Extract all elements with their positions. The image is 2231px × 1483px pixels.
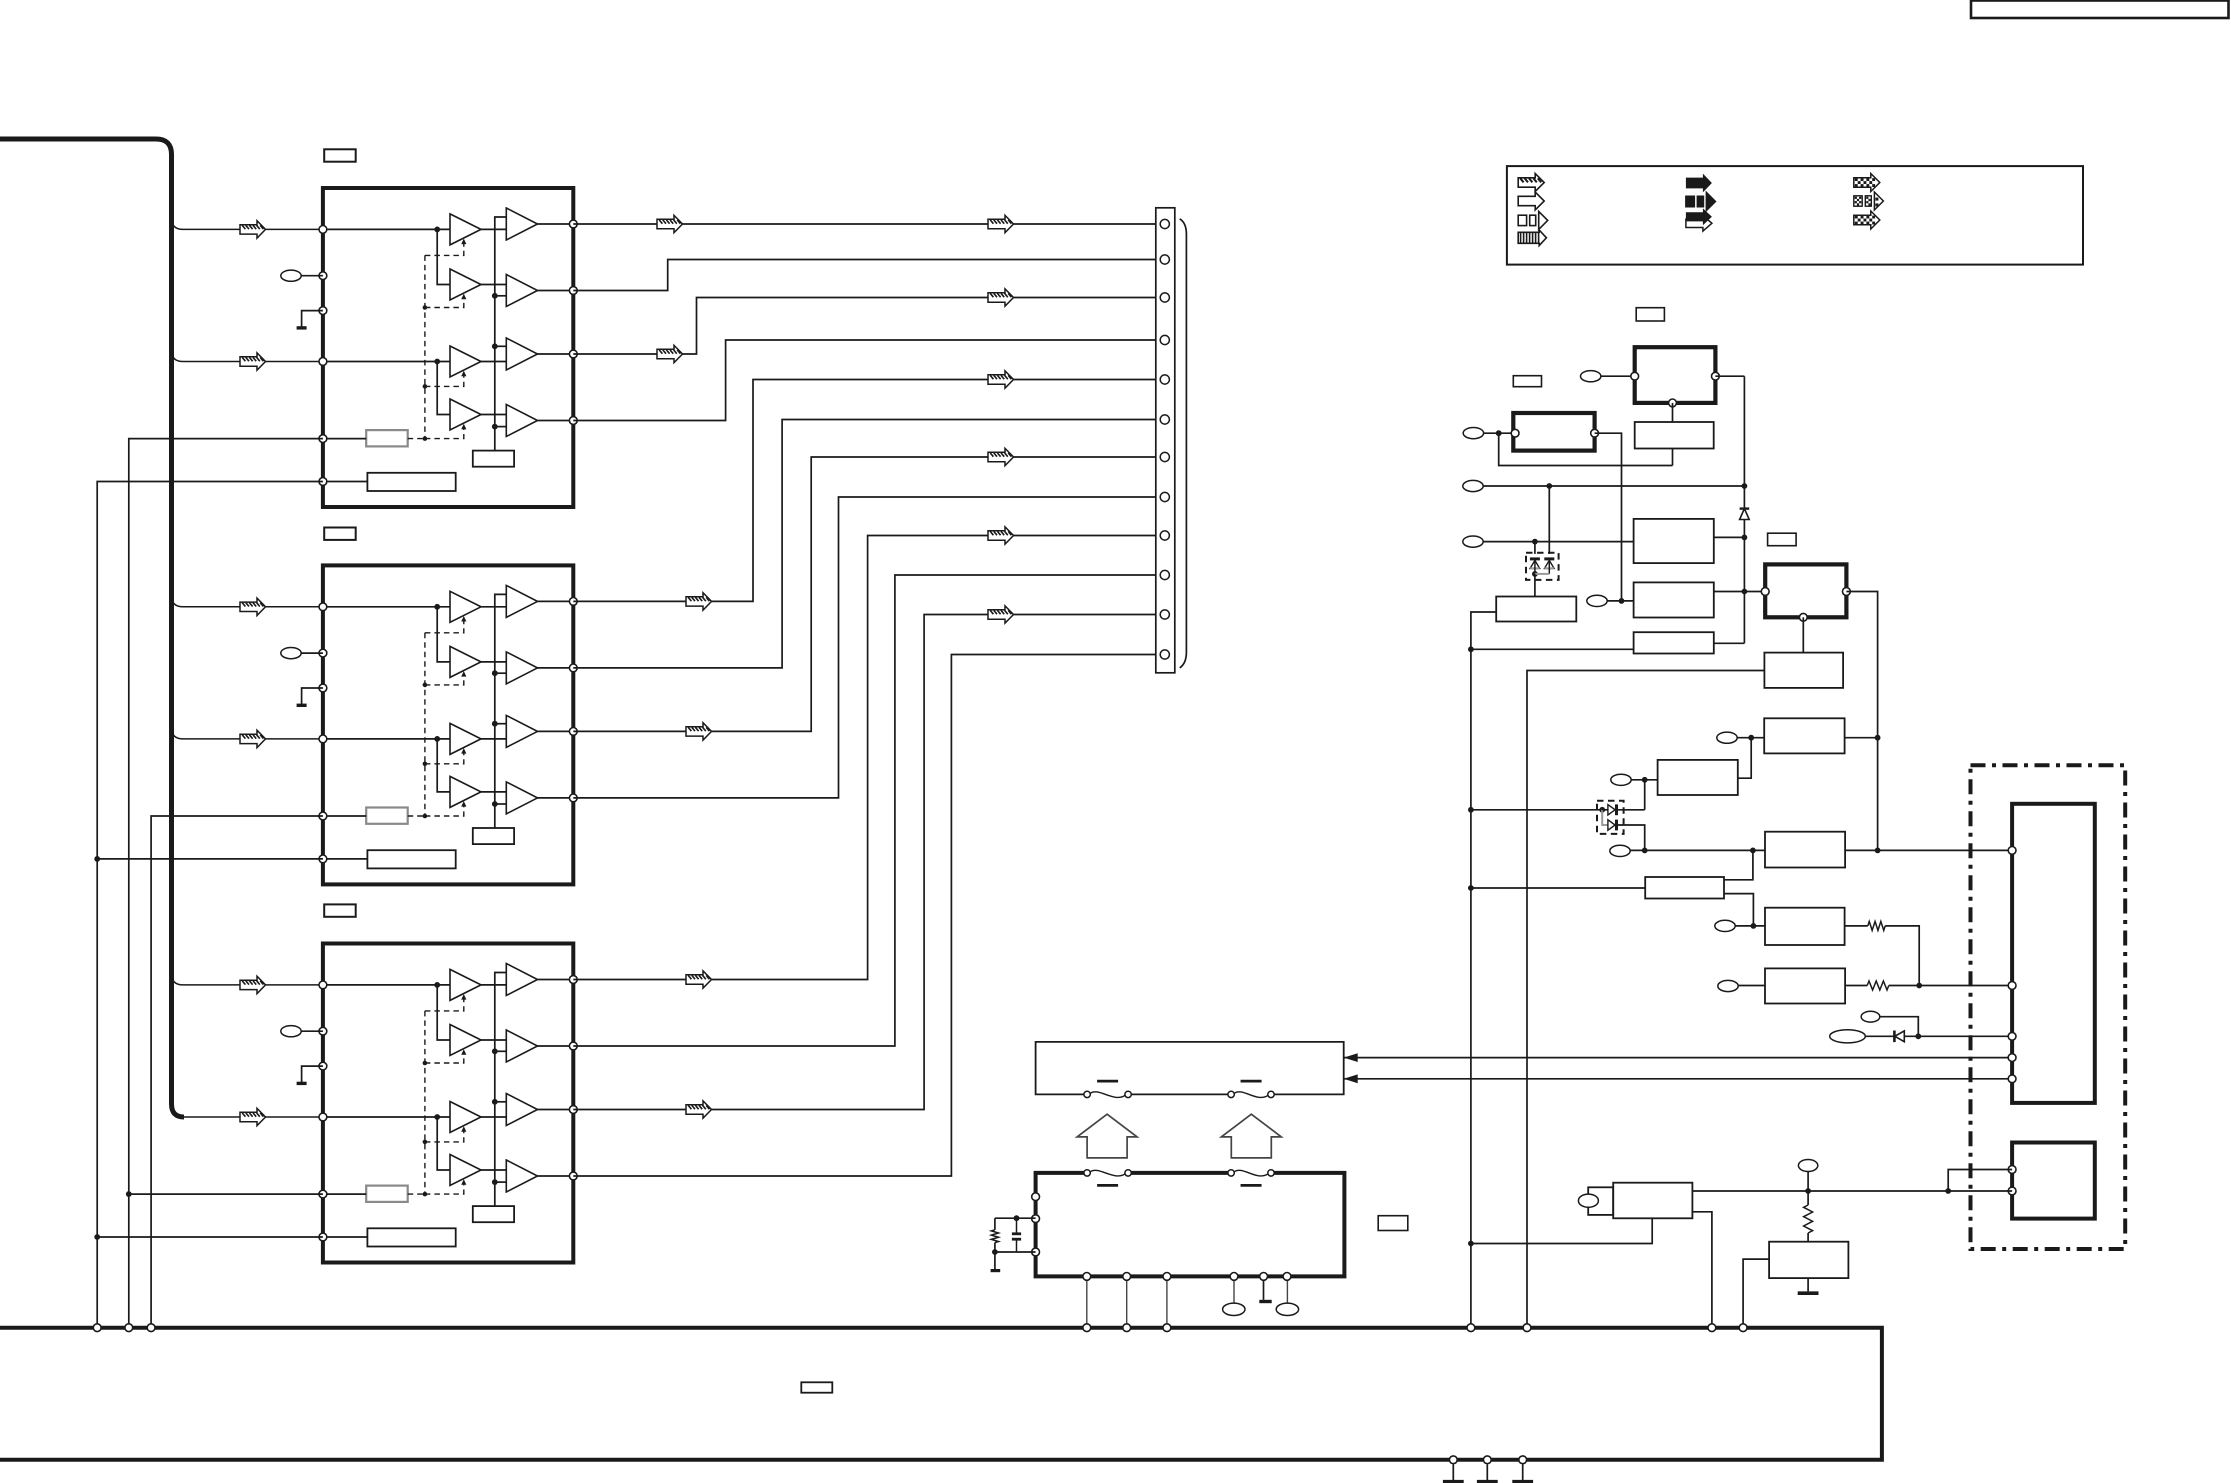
feeder net pin5 vertical — [129, 439, 323, 1326]
power board pin L2 — [1032, 1215, 1040, 1223]
IC3 dashed arrowhead 3 — [461, 1126, 466, 1132]
wire test point row — [1484, 485, 1745, 487]
wire test point to C — [1607, 600, 1633, 602]
wire cable to IC3 input2 arrow — [240, 1108, 266, 1125]
wire R ellipse down — [1807, 1172, 1809, 1206]
IC2 dashed arrowhead 1 — [461, 616, 466, 622]
IC3 input buffer 4 — [450, 1155, 481, 1186]
connector pin 6 — [1160, 415, 1169, 424]
E bottom pin — [1799, 613, 1807, 621]
bridge wire small block — [1948, 1170, 2012, 1192]
R ellipse — [1798, 1160, 1817, 1172]
wire C out to E — [1714, 591, 1765, 593]
relay block E — [1765, 564, 1846, 617]
title block cell (top-right) — [1971, 1, 2229, 19]
IC1 output pin 3 — [569, 350, 577, 358]
chassis bar b5 — [1259, 1300, 1271, 1303]
IC1 input buffer 1 — [450, 214, 481, 245]
IC2 output buffer 3 — [506, 715, 537, 747]
junction row3 branch — [1546, 483, 1552, 489]
IC2 dashed branch to buffer 4 — [425, 803, 464, 816]
IC2 inter-buffer wire 1 — [481, 606, 506, 608]
wire IC1.out3 to connector pin 3 — [573, 298, 1156, 355]
IC2 left pin 5 — [319, 812, 327, 820]
package2 inner lead — [1602, 810, 1608, 825]
module small pin 2 — [2008, 1187, 2016, 1195]
package bottom join — [1535, 573, 1549, 575]
wire R4 bottom — [994, 1243, 996, 1252]
IC3 pin3 chassis wire — [302, 1066, 323, 1082]
IC2 input1 branch wire to buffer 2 — [437, 607, 450, 662]
connector pin 12 — [1160, 650, 1169, 659]
wire A to vertical rail — [1715, 375, 1744, 377]
B input test point — [1463, 428, 1483, 439]
A input pin — [1631, 372, 1639, 380]
wire to diode package 2 — [1471, 809, 1602, 811]
legend arrow checkered — [1854, 174, 1880, 192]
ground stub g1 — [1452, 1464, 1454, 1480]
power board top seg — [1131, 1171, 1228, 1175]
RC ground bar — [991, 1269, 1001, 1272]
zener left of package — [1530, 557, 1540, 560]
junction H input — [1748, 735, 1754, 741]
wire RC bottom — [995, 1251, 1036, 1253]
IC2 bias stub to output buffer 2 — [495, 672, 507, 674]
main board top pin t10 — [1739, 1324, 1747, 1332]
wire Q bottom — [1471, 1218, 1652, 1243]
wire box to fuse board y1078 — [1344, 1078, 2012, 1080]
connector pin 4 — [1160, 335, 1169, 344]
wire pin b6 — [1286, 1281, 1288, 1303]
wire I out up — [1738, 738, 1751, 779]
IC2 left pin 4 — [319, 735, 327, 743]
capacitor C1 — [1016, 1218, 1018, 1234]
wire IC3.out2 to connector pin 10 — [573, 575, 1156, 1046]
wire J out to box — [1845, 849, 2012, 851]
IC1 output wire 4 — [538, 420, 574, 422]
IC1 dashed branch to buffer 2 — [425, 296, 464, 308]
power board pin L1 — [1032, 1193, 1040, 1201]
IC2 left pin 2 — [319, 649, 327, 657]
block P — [1496, 597, 1576, 622]
IC3 inter-buffer wire 4 — [481, 1169, 506, 1171]
main board bottom pin g2 — [1483, 1456, 1491, 1464]
wire R2 to box — [1889, 985, 2012, 987]
IC2 output wire 2 — [538, 667, 574, 669]
ground bar g3 — [1512, 1480, 1533, 1483]
wire K out — [1845, 925, 1868, 927]
power board bottom pin x1086 — [1083, 1273, 1091, 1281]
IC1 pin5 wire — [323, 438, 366, 440]
IC2 dashed wire control block — [408, 815, 425, 817]
junction Q bottom — [1468, 1241, 1474, 1247]
block C — [1634, 582, 1714, 617]
wire power board to main board x1126 — [1126, 1281, 1128, 1326]
main board top pin t2 — [125, 1324, 133, 1332]
wire cable to IC1 input1 — [172, 218, 319, 229]
IC1 output pin 4 — [569, 417, 577, 425]
junction D2 — [1915, 1033, 1921, 1039]
vertical rail from A — [1743, 376, 1745, 643]
main board top pin t4 — [1083, 1324, 1091, 1332]
test point b4 — [1223, 1303, 1245, 1315]
resistor R2 — [1867, 981, 1889, 990]
IC2 bias rail — [495, 594, 507, 828]
IC1 dashed branch to buffer 4 — [425, 426, 464, 439]
legend arrow solid squares — [1686, 196, 1694, 206]
IC1 dashed arrowhead 2 — [461, 294, 466, 300]
IC1 pin6 wire — [323, 481, 368, 483]
fuse F3 (power board) — [1084, 1170, 1090, 1176]
IC1 input2 junction — [434, 359, 440, 365]
IC3 left pin 1 — [319, 981, 327, 989]
IC2 dashed arrowhead 2 — [461, 671, 466, 677]
ground bar g2 — [1477, 1480, 1498, 1483]
branch down to diode pair — [1548, 486, 1550, 554]
IC2 input1 junction — [434, 604, 440, 610]
label box E — [1768, 533, 1797, 546]
IC2 dashed branch to buffer 3 — [425, 750, 464, 764]
test point b6 — [1276, 1303, 1298, 1315]
IC3 dashed junction 3 — [423, 1140, 428, 1145]
package2 top out wire — [1617, 809, 1645, 811]
IC2 inter-buffer wire 2 — [481, 661, 506, 663]
IC3 bias junction 4 — [492, 1179, 498, 1185]
label box IC602 — [324, 528, 356, 540]
IC2 left pin 3 — [319, 684, 327, 692]
wire test point to H — [1737, 737, 1764, 739]
wire E bottom to F — [1802, 617, 1804, 652]
IC3 control dashed rail — [424, 1011, 426, 1194]
IC1 pin2 test point — [281, 270, 301, 281]
package2 top diode — [1608, 805, 1615, 815]
wire R4 top lead — [994, 1218, 996, 1230]
fuse board bottom seg — [1131, 1093, 1228, 1095]
IC2 pin6 wire — [323, 858, 368, 860]
IC2 pin3 chassis wire — [302, 688, 323, 704]
wire IC2.out1 to connector pin 5 arrow near connector — [988, 371, 1014, 388]
dual diode package 2 (dashed) — [1597, 801, 1624, 834]
IC1 input2 branch wire to buffer 4 — [437, 362, 450, 415]
package2 bottom diode — [1608, 820, 1615, 830]
feeder net pin6 vertical — [97, 482, 323, 1326]
wire L out — [1845, 985, 1867, 987]
feeder net pin5 branch IC3 — [129, 1193, 323, 1195]
main board top pin t5 — [1123, 1324, 1131, 1332]
IC2 output pin 1 — [569, 598, 577, 606]
wire test point to D — [1484, 541, 1634, 543]
module pin 4 — [2008, 1054, 2016, 1062]
IC2 dashed junction 4 — [423, 814, 428, 819]
wire F input — [1527, 671, 1764, 1326]
wire test point to L — [1738, 985, 1765, 987]
IC1 bias stub to output buffer 2 — [495, 295, 507, 297]
junction R1R2 — [1916, 983, 1922, 989]
fuse board outline — [1036, 1042, 1344, 1095]
junction diode feed — [1468, 807, 1474, 813]
power board pin b4 — [1230, 1273, 1238, 1281]
wire test point to A — [1601, 375, 1635, 377]
hybrid driver IC block 1 outline — [323, 188, 573, 507]
IC2 dashed branch to buffer 2 — [425, 673, 464, 685]
package output lead — [1534, 574, 1536, 597]
IC1 output wire 1 — [538, 223, 574, 225]
module pin 1 — [2008, 847, 2016, 855]
wire IC2.out1 to connector pin 5 — [573, 380, 1156, 602]
IC1 left pin 4 — [319, 358, 327, 366]
IC2 pin2 test point — [281, 648, 301, 659]
resistor R3 — [1804, 1205, 1813, 1233]
IC1 dashed junction 3 — [423, 384, 428, 389]
junction N input — [1468, 885, 1474, 891]
B output pin — [1591, 429, 1599, 437]
wire test point to B — [1484, 432, 1515, 434]
junction J out — [1875, 848, 1881, 854]
main board bottom pin g3 — [1519, 1456, 1527, 1464]
connector pin 2 — [1160, 255, 1169, 264]
legend arrow checkered squares — [1854, 196, 1862, 206]
IC2 output pin 2 — [569, 664, 577, 672]
I input test point — [1611, 774, 1631, 785]
IC1 bias junction 4 — [492, 424, 498, 430]
wire IC2.out3 to connector pin 7 arrow near connector — [988, 448, 1014, 465]
wire pin b4 — [1233, 1281, 1235, 1303]
module pin 3 — [2008, 1032, 2016, 1040]
junction row3 on rail — [1742, 483, 1748, 489]
block arrow up 2 — [1221, 1114, 1281, 1158]
IC2 control block — [366, 808, 408, 824]
IC3 input1 junction — [434, 982, 440, 988]
IC2 bias junction 2 — [492, 670, 498, 676]
IC3 input buffer 2 — [450, 1025, 481, 1056]
IC1 bias rail — [495, 217, 507, 451]
package2 bottom out wire — [1617, 825, 1645, 850]
wire cable to IC2 input1 — [172, 596, 319, 607]
IC2 input2 junction — [434, 736, 440, 742]
IC1 left pin 2 — [319, 272, 327, 280]
label box IC603 — [324, 904, 356, 916]
wire N out bottom — [1724, 894, 1753, 926]
IC2 bias stub to output buffer 4 — [495, 803, 507, 805]
main board outline — [0, 1328, 1882, 1460]
diode D1 on rail — [1740, 509, 1750, 520]
IC1 pin2 test point wire — [301, 275, 323, 277]
wire cable to IC3 input2 — [172, 1106, 319, 1117]
wire large tp to diode — [1865, 1035, 1894, 1037]
wire H out — [1845, 737, 1878, 739]
IC3 dashed junction 2 — [423, 1061, 428, 1066]
main board bottom pin g1 — [1449, 1456, 1457, 1464]
bridge junction — [1945, 1188, 1951, 1194]
label box B — [1513, 376, 1541, 387]
small test point — [1861, 1011, 1880, 1022]
wire pin L2 to RC — [995, 1217, 1036, 1219]
label box power board — [1378, 1216, 1408, 1231]
module small block — [2012, 1143, 2095, 1219]
IC1 pin3 chassis bar — [297, 326, 307, 329]
wire cable to IC2 input2 arrow — [240, 730, 266, 747]
wire small tp down — [1880, 1017, 1919, 1037]
legend box — [1507, 166, 2083, 265]
wire R1 down — [1885, 926, 1919, 986]
IC2 bias stub to output buffer 3 — [495, 723, 507, 725]
IC1 output pin 1 — [569, 220, 577, 228]
IC2 pin2 test point wire — [301, 652, 323, 654]
IC1 dashed junction 4 — [423, 436, 428, 441]
D input test point — [1463, 536, 1483, 547]
legend arrow vstripe — [1518, 230, 1546, 246]
relay block A — [1635, 347, 1716, 403]
wire IC3.out1 to connector pin 9 arrow near connector — [988, 527, 1014, 544]
IC1 inter-buffer wire 3 — [481, 361, 506, 363]
wire cable to IC2 input1 arrow — [240, 598, 266, 615]
IC1 control dashed rail — [424, 255, 426, 438]
IC3 inter-buffer wire 1 — [481, 984, 506, 986]
IC1 bias stub to output buffer 4 — [495, 426, 507, 428]
IC2 input buffer 1 — [450, 591, 481, 622]
IC3 output wire 3 — [538, 1109, 574, 1111]
Q input test point — [1578, 1194, 1598, 1207]
junction R top — [1805, 1188, 1811, 1194]
fuse F4 (power board) — [1228, 1170, 1234, 1176]
wire D2 to box — [1904, 1035, 2012, 1037]
main board top pin t1 — [93, 1324, 101, 1332]
ground stub g2 — [1486, 1464, 1488, 1480]
block G — [1634, 632, 1714, 653]
A output pin — [1712, 372, 1720, 380]
IC2 left pin 1 — [319, 603, 327, 611]
IC1 output buffer 4 — [506, 405, 537, 437]
IC3 output buffer 4 — [506, 1160, 537, 1192]
legend arrow open — [1518, 192, 1544, 210]
IC1 inter-buffer wire 2 — [481, 284, 506, 286]
feedback wire A2 to B input — [1499, 433, 1673, 465]
IC2 output wire 4 — [538, 797, 574, 799]
junction C input — [1619, 598, 1625, 604]
wire cable to IC3 input1 arrow — [240, 976, 266, 993]
IC2 lower block — [367, 850, 455, 868]
wire R3 to R — [1807, 1233, 1809, 1242]
wire IC1.out1 to connector pin 1 — [573, 223, 1156, 225]
IC1 bias block — [473, 451, 514, 467]
wire N input — [1471, 887, 1645, 889]
wire IC3.out3 to connector pin 11 arrow near connector — [988, 606, 1014, 623]
IC3 bias stub to output buffer 3 — [495, 1101, 507, 1103]
IC1 left pin 5 — [319, 435, 327, 443]
block I — [1658, 760, 1738, 795]
connector CN board strip — [1156, 208, 1175, 673]
wire R left pin — [1743, 1259, 1769, 1325]
IC2 output buffer 4 — [506, 782, 537, 814]
feeder net pin5 IC2 vertical — [151, 816, 323, 1326]
power board pin L3 — [1032, 1248, 1040, 1256]
IC1 left pin 6 — [319, 478, 327, 486]
L input test point — [1718, 980, 1738, 991]
IC3 dashed arrowhead 2 — [461, 1049, 466, 1055]
wire IC3.out3 to connector pin 11 — [573, 615, 1156, 1110]
IC1 inter-buffer wire 4 — [481, 414, 506, 416]
IC1 pin3 chassis wire — [302, 311, 323, 327]
IC2 dashed junction 3 — [423, 762, 428, 767]
arrowhead into fuse board y1057 — [1344, 1053, 1358, 1062]
block A2 — [1635, 422, 1714, 449]
J input test point — [1610, 845, 1630, 856]
IC1 left pin 3 — [319, 307, 327, 315]
feeder junction b — [94, 1234, 100, 1240]
feeder junction c — [126, 1191, 132, 1197]
junction G input — [1468, 646, 1474, 652]
wire B output down — [1595, 433, 1622, 601]
IC2 bias block — [473, 828, 514, 844]
IC3 bias rail — [495, 973, 507, 1207]
RC ground stub — [994, 1252, 996, 1269]
IC2 dashed branch to buffer 1 — [425, 618, 464, 633]
wire IC3.out1 to connector pin 9 — [573, 536, 1156, 980]
IC1 bias junction 3 — [492, 343, 498, 349]
IC1 dashed branch to buffer 1 — [425, 241, 464, 256]
hybrid driver IC block 3 outline — [323, 944, 573, 1263]
IC1 output wire 3 — [538, 353, 574, 355]
C input test point 2 — [1587, 595, 1607, 606]
power board pin b5 — [1260, 1273, 1268, 1281]
arrowhead into fuse board y1078 — [1344, 1074, 1358, 1083]
R ground stub — [1807, 1278, 1809, 1291]
IC1 control block — [366, 430, 408, 446]
IC3 inter-buffer wire 3 — [481, 1116, 506, 1118]
package2 top diode lead — [1602, 809, 1608, 811]
main board top pin t6 — [1163, 1324, 1171, 1332]
IC3 output pin 1 — [569, 976, 577, 984]
wire IC1.out4 to connector pin 4 — [573, 340, 1156, 421]
wire I-dot down to diode — [1644, 780, 1646, 810]
legend arrow half solid — [1686, 216, 1712, 232]
IC1 input2 internal wire — [323, 361, 450, 363]
IC3 output pin 3 — [569, 1106, 577, 1114]
main board top pin t8 — [1523, 1324, 1531, 1332]
connector pin 8 — [1160, 492, 1169, 501]
wire box to fuse board y1057 — [1344, 1057, 2012, 1059]
IC3 bias junction 2 — [492, 1048, 498, 1054]
IC3 input buffer 1 — [450, 969, 481, 1000]
connector bracket — [1180, 219, 1187, 668]
wire power board to main board x1166 — [1166, 1281, 1168, 1326]
wire IC3.out3 to connector pin 11 arrow near IC — [686, 1101, 712, 1118]
IC2 dashed arrowhead 3 — [461, 748, 466, 754]
IC2 pin3 chassis bar — [297, 704, 307, 707]
junction J in b — [1750, 848, 1756, 854]
K input test point — [1715, 920, 1735, 931]
block Q — [1613, 1183, 1692, 1219]
wire Q right-bottom — [1692, 1212, 1712, 1326]
wire cable to IC1 input1 arrow — [240, 221, 266, 238]
bus cable from left edge — [0, 139, 184, 1117]
fuse F2 (board1) — [1228, 1091, 1234, 1097]
A2 bottom stub — [1672, 449, 1674, 466]
block arrow up 1 — [1077, 1114, 1137, 1158]
main board top pin t7 — [1467, 1324, 1475, 1332]
junction row5 branch — [1532, 539, 1538, 545]
IC2 inter-buffer wire 3 — [481, 738, 506, 740]
connector pin 5 — [1160, 375, 1169, 384]
Q input rect — [1588, 1187, 1613, 1215]
IC1 dashed arrowhead 1 — [461, 239, 466, 245]
wire IC1.out1 to connector pin 1 arrow near connector — [988, 215, 1014, 232]
IC3 input2 branch wire to buffer 4 — [437, 1117, 450, 1170]
feeder junction a — [94, 856, 100, 862]
IC3 dashed branch to buffer 3 — [425, 1128, 464, 1142]
connector pin 3 — [1160, 293, 1169, 302]
wire cable to IC3 input1 — [172, 974, 319, 985]
